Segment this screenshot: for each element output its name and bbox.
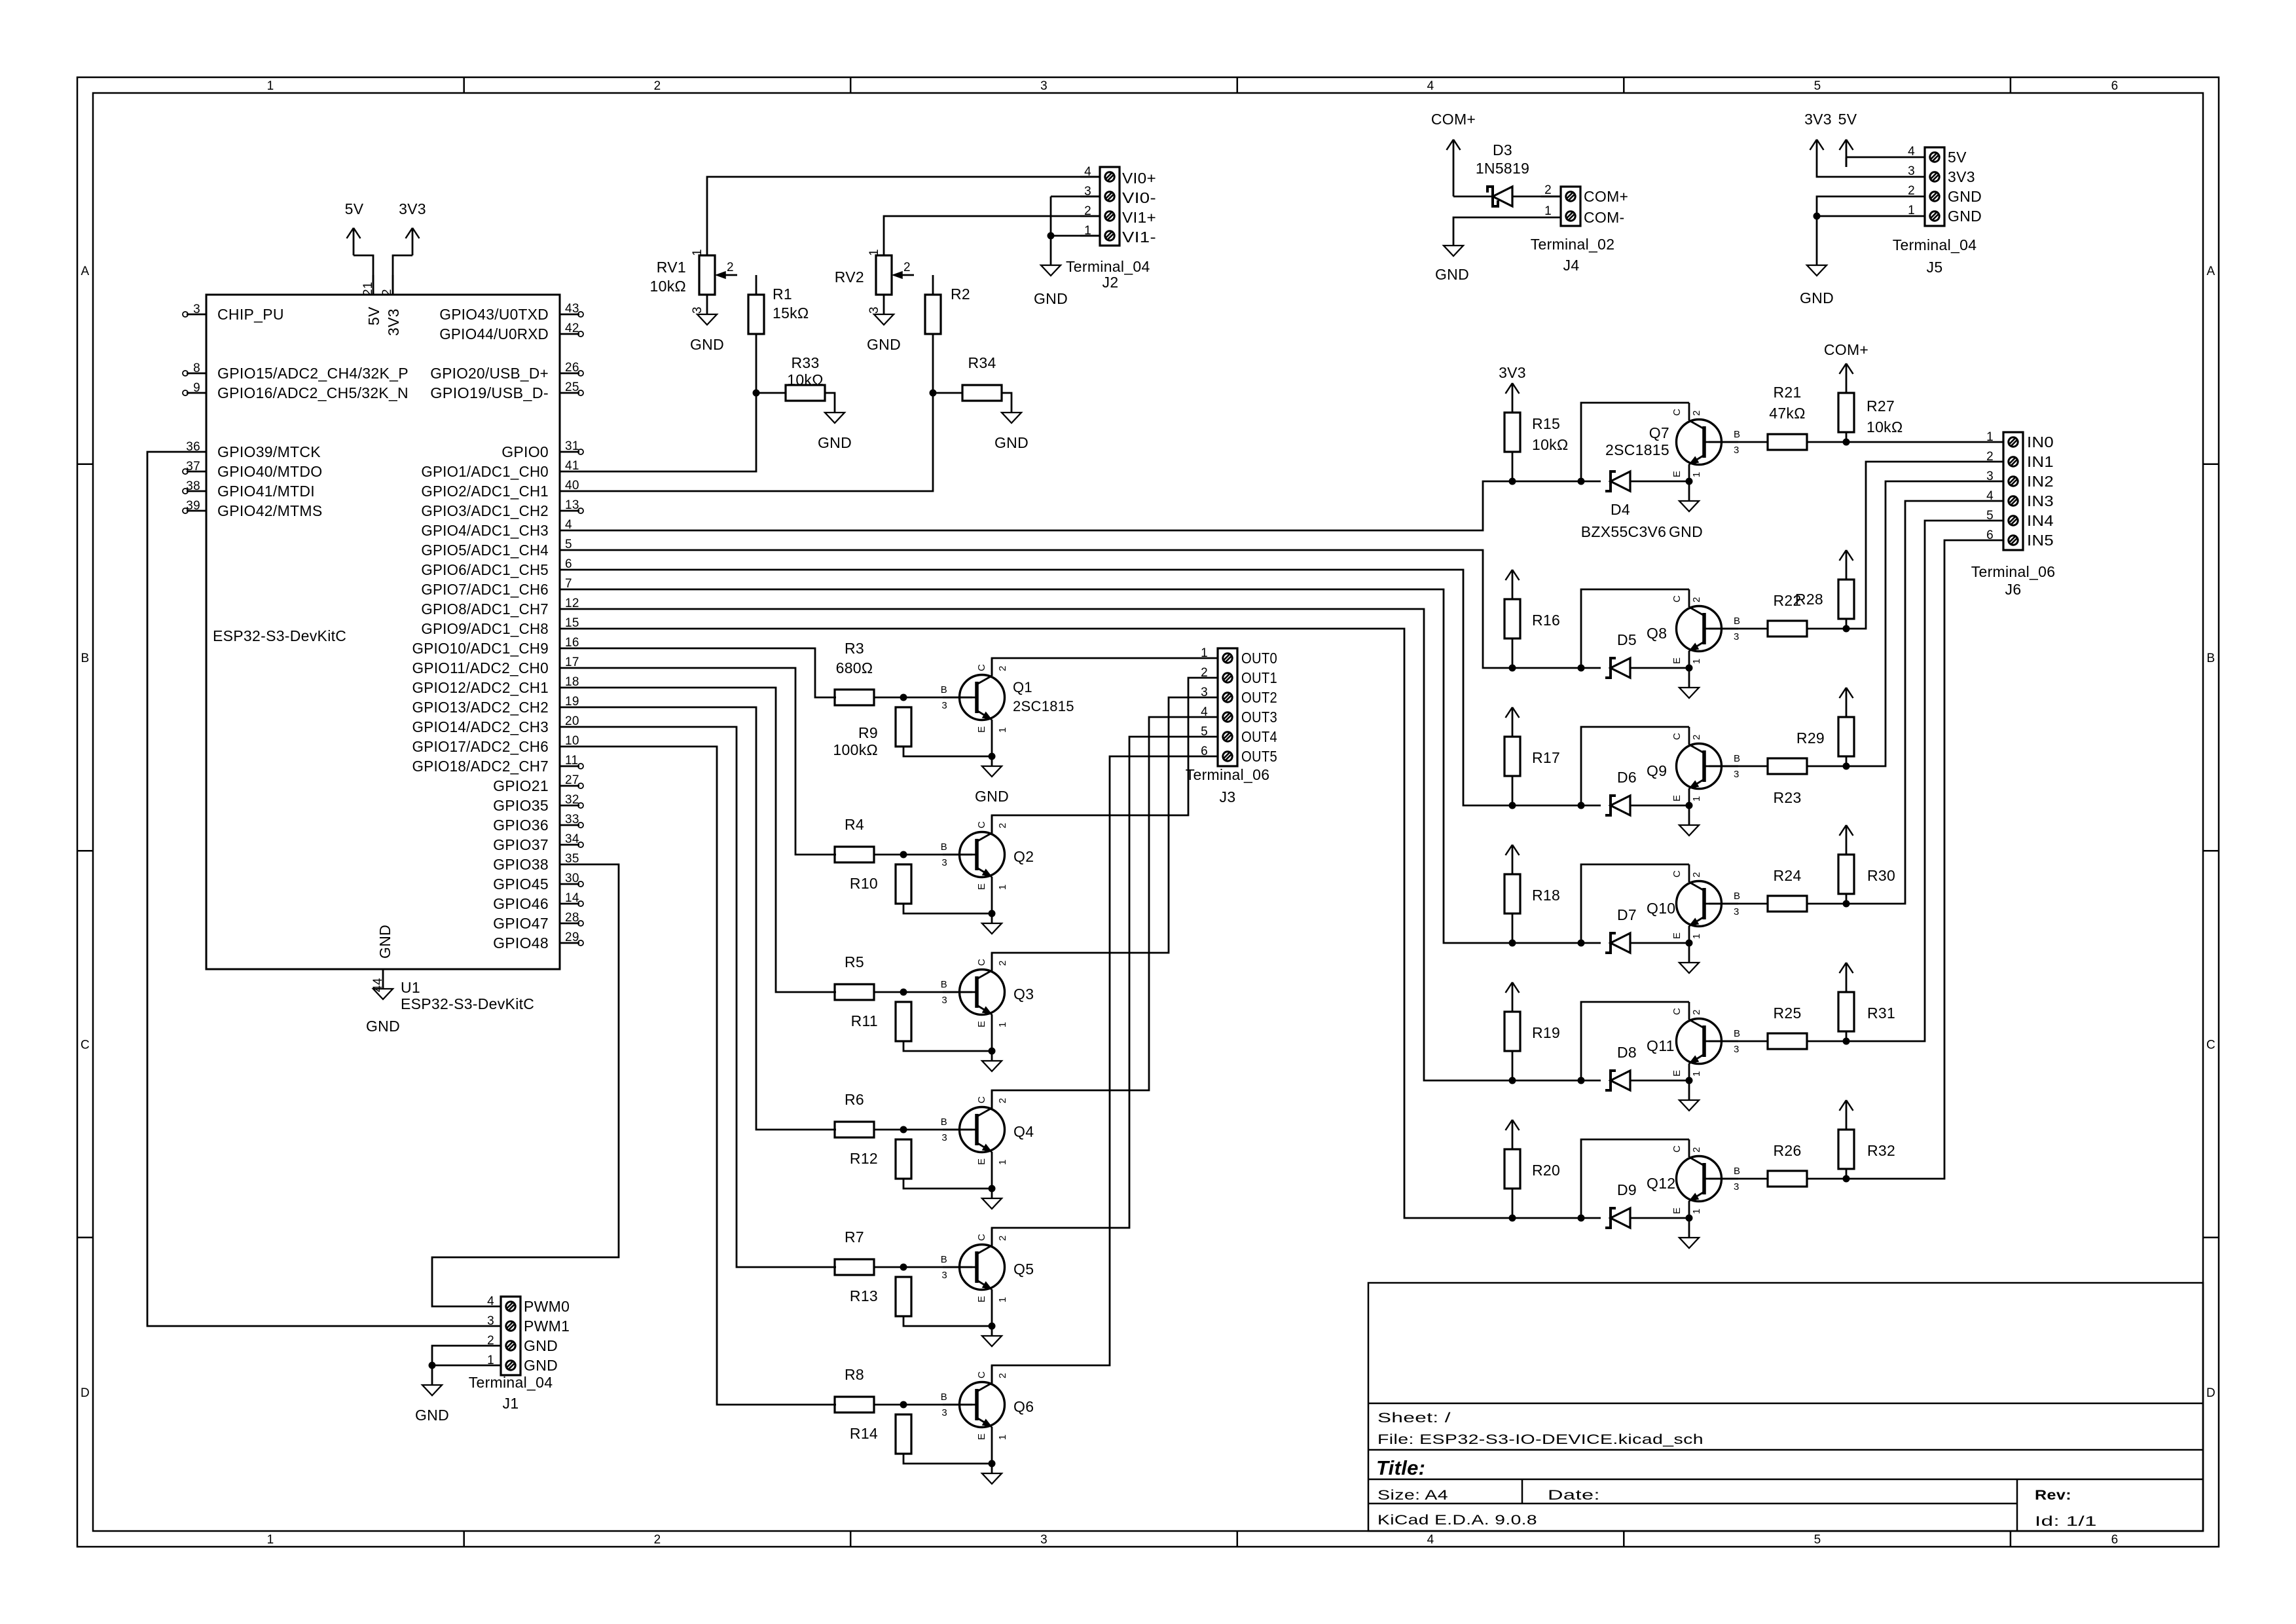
svg-text:GPIO47: GPIO47 <box>493 915 549 932</box>
svg-text:GPIO12/ADC2_CH1: GPIO12/ADC2_CH1 <box>412 679 549 696</box>
U1 pin 12 GPIO8/ADC1_CH7 <box>421 597 579 618</box>
svg-text:6: 6 <box>565 557 572 571</box>
ground at R33 <box>818 413 852 451</box>
svg-text:2: 2 <box>1544 183 1552 197</box>
svg-text:41: 41 <box>565 459 579 473</box>
svg-text:2SC1815: 2SC1815 <box>1013 698 1074 714</box>
svg-text:GND: GND <box>415 1407 449 1424</box>
svg-text:R19: R19 <box>1532 1024 1560 1041</box>
svg-text:2: 2 <box>997 960 1008 966</box>
svg-text:GPIO10/ADC1_CH9: GPIO10/ADC1_CH9 <box>412 640 549 657</box>
svg-text:2: 2 <box>997 1235 1008 1241</box>
svg-text:3: 3 <box>691 306 704 314</box>
transistor Q9 2SC1815 <box>1647 727 1740 805</box>
wire U1 pin 18 to R5 <box>579 688 836 992</box>
svg-text:2: 2 <box>1691 734 1702 740</box>
resistor R11 (pulldown) <box>851 1002 911 1041</box>
wire J1 pin2/pin1 to ground <box>432 1346 481 1385</box>
svg-text:R13: R13 <box>850 1287 878 1304</box>
wire Q8 emitter to ground <box>1688 668 1690 688</box>
ground at Q9 <box>1679 825 1699 836</box>
svg-text:4: 4 <box>487 1295 494 1308</box>
svg-text:GND: GND <box>524 1357 558 1374</box>
resistor R22 (base) <box>1768 592 1807 637</box>
resistor R3 (base) <box>835 640 874 705</box>
ground at U1 pin 44 <box>366 989 400 1035</box>
resistor R26 (base) <box>1768 1142 1807 1187</box>
power COM+ <box>1431 111 1476 167</box>
wire Q1 collector to J3 pin 1 <box>992 658 1198 676</box>
wire Q11 collector loop <box>1581 1002 1689 1080</box>
potentiometer RV2 <box>835 249 914 314</box>
U1 pin 29 GPIO48 <box>493 931 583 951</box>
svg-text:GPIO19/USB_D-: GPIO19/USB_D- <box>430 384 549 401</box>
svg-text:B: B <box>1734 1028 1740 1039</box>
transistor Q12 2SC1815 <box>1647 1139 1740 1218</box>
resistor R20 (pullup to 3V3) <box>1504 1139 1560 1218</box>
power 3V3 at R19 <box>1506 982 1520 1002</box>
svg-text:Rev:: Rev: <box>2035 1488 2071 1503</box>
svg-text:3: 3 <box>941 1132 947 1143</box>
svg-text:1: 1 <box>997 727 1008 733</box>
svg-text:Q4: Q4 <box>1013 1123 1034 1140</box>
svg-text:C: C <box>1671 1145 1683 1153</box>
svg-text:3: 3 <box>941 1407 947 1418</box>
svg-text:14: 14 <box>565 891 579 905</box>
svg-text:C: C <box>1671 409 1683 416</box>
svg-text:R27: R27 <box>1867 397 1895 415</box>
resistor R1 15k <box>748 286 809 334</box>
svg-text:Q5: Q5 <box>1013 1261 1034 1278</box>
wire RV1 wiper to R1 <box>756 275 757 295</box>
wire Q9 emitter to ground <box>1688 805 1690 825</box>
U1 pin 9 GPIO16/ADC2_CH5/32K_N <box>183 381 409 401</box>
svg-text:D9: D9 <box>1617 1181 1637 1198</box>
svg-text:R1: R1 <box>773 286 792 303</box>
wire U1 pin 19 to R6 <box>579 707 836 1130</box>
junction Q8 emitter <box>1686 665 1693 672</box>
wire node to R34 <box>933 392 962 394</box>
svg-text:3V3: 3V3 <box>1948 168 1975 185</box>
resistor R32 (pullup to COM+) <box>1838 1120 1895 1179</box>
svg-text:B: B <box>2207 652 2215 665</box>
svg-text:1: 1 <box>997 1297 1008 1302</box>
svg-text:3: 3 <box>1734 631 1740 642</box>
svg-text:10kΩ: 10kΩ <box>1532 436 1568 453</box>
wire channel 2 node to D6 <box>1512 805 1601 807</box>
svg-text:J2: J2 <box>1102 274 1119 291</box>
svg-text:B: B <box>941 1392 947 1403</box>
svg-text:3V3: 3V3 <box>1499 364 1526 381</box>
svg-text:5V: 5V <box>365 306 382 325</box>
diode D8 BZX55C3V6 (zener) <box>1605 1044 1637 1090</box>
U1 pin 15 GPIO9/ADC1_CH8 <box>421 616 579 637</box>
ground at R34 <box>994 413 1029 451</box>
diode D3 1N5819 (schottky) <box>1476 141 1529 206</box>
svg-text:R8: R8 <box>845 1366 864 1383</box>
svg-text:34: 34 <box>565 832 579 846</box>
resistor R18 (pullup to 3V3) <box>1504 864 1560 943</box>
U1 pin 16 GPIO10/ADC1_CH9 <box>412 636 580 657</box>
svg-text:10kΩ: 10kΩ <box>787 371 823 388</box>
svg-text:E: E <box>1671 932 1683 939</box>
svg-text:COM+: COM+ <box>1824 341 1868 358</box>
svg-text:Terminal_04: Terminal_04 <box>1893 236 1977 253</box>
transistor Q4 2SC1815 <box>941 1090 1034 1169</box>
wire R5 to Q3 base <box>874 991 972 993</box>
svg-text:3V3: 3V3 <box>1804 111 1832 128</box>
svg-text:GPIO9/ADC1_CH8: GPIO9/ADC1_CH8 <box>421 620 549 637</box>
wire channel 0 node to D4 <box>1512 481 1601 483</box>
svg-text:29: 29 <box>565 931 579 944</box>
svg-text:VI0+: VI0+ <box>1122 170 1156 187</box>
svg-text:Id: 1/1: Id: 1/1 <box>2035 1514 2097 1529</box>
svg-text:1: 1 <box>1544 204 1552 218</box>
svg-text:J6: J6 <box>2005 581 2022 598</box>
wire R9 to emitter node <box>903 747 992 756</box>
ground at J1 <box>415 1385 449 1424</box>
svg-text:B: B <box>941 841 947 853</box>
svg-text:VI1-: VI1- <box>1122 229 1156 246</box>
svg-text:GND: GND <box>818 434 852 451</box>
U1 pin 36 GPIO39/MTCK <box>186 440 321 460</box>
svg-text:Size: A4: Size: A4 <box>1377 1488 1448 1503</box>
wire COM+ to D3 cathode <box>1453 167 1493 196</box>
svg-text:D5: D5 <box>1617 631 1637 648</box>
svg-text:GPIO37: GPIO37 <box>493 836 549 853</box>
svg-text:Terminal_06: Terminal_06 <box>1186 766 1270 783</box>
wire D6 to Q9 emitter <box>1630 805 1689 807</box>
svg-text:GND: GND <box>690 336 724 353</box>
U1 pin 2 3V3 (top) <box>380 275 402 336</box>
wire U1 pin 17 to R4 <box>579 668 836 855</box>
svg-text:1: 1 <box>267 79 274 93</box>
svg-text:OUT3: OUT3 <box>1241 709 1277 726</box>
junction R17 node <box>1509 802 1516 809</box>
svg-text:31: 31 <box>565 439 579 453</box>
svg-text:B: B <box>941 684 947 695</box>
svg-text:E: E <box>976 1433 987 1440</box>
svg-text:4: 4 <box>1427 79 1434 93</box>
svg-text:COM+: COM+ <box>1584 188 1628 205</box>
svg-text:OUT2: OUT2 <box>1241 689 1277 706</box>
svg-text:GND: GND <box>994 434 1029 451</box>
svg-text:R25: R25 <box>1773 1005 1801 1022</box>
resistor R19 (pullup to 3V3) <box>1504 1002 1560 1080</box>
svg-text:CHIP_PU: CHIP_PU <box>217 306 284 323</box>
svg-text:GPIO45: GPIO45 <box>493 876 549 893</box>
svg-text:C: C <box>1671 1008 1683 1015</box>
svg-text:28: 28 <box>565 911 579 925</box>
svg-text:E: E <box>1671 795 1683 802</box>
wire Q7 collector loop <box>1581 403 1689 481</box>
resistor R21 (base) <box>1768 384 1807 450</box>
svg-text:E: E <box>976 1158 987 1165</box>
U1 pin 37 GPIO40/MTDO <box>183 460 323 480</box>
svg-text:1: 1 <box>1986 430 1994 444</box>
resistor R34 <box>962 354 1002 401</box>
svg-text:D: D <box>2206 1386 2215 1400</box>
svg-text:R23: R23 <box>1773 789 1801 806</box>
wire U1 pin 10 to R8 <box>579 747 836 1405</box>
svg-text:2: 2 <box>1691 410 1702 416</box>
svg-text:VI0-: VI0- <box>1122 189 1156 206</box>
connector J5 Terminal_04 <box>1893 145 1982 276</box>
U1 pin 33 GPIO36 <box>493 813 583 834</box>
svg-text:R14: R14 <box>850 1425 878 1442</box>
svg-text:R34: R34 <box>968 354 996 371</box>
svg-text:33: 33 <box>565 813 579 826</box>
svg-text:GND: GND <box>867 336 901 353</box>
transistor Q1 2SC1815 <box>941 658 1074 737</box>
wire RV2 wiper to R2 <box>932 275 934 295</box>
wire R22 to J6 node <box>1807 628 1846 630</box>
power 3V3 at J5 <box>1804 111 1832 167</box>
svg-text:4: 4 <box>1427 1533 1434 1547</box>
svg-text:GPIO48: GPIO48 <box>493 934 549 951</box>
wire 3V3 to J5 pin3 <box>1817 167 1905 177</box>
resistor R10 (pulldown) <box>850 864 911 904</box>
ground at Q8 <box>1679 688 1699 698</box>
svg-text:GPIO41/MTDI: GPIO41/MTDI <box>217 483 315 500</box>
resistor R4 (base) <box>835 816 874 862</box>
svg-text:30: 30 <box>565 872 579 885</box>
resistor R7 (base) <box>835 1228 874 1275</box>
power COM+ at R31 <box>1840 963 1853 982</box>
wire channel 1 to J6 pin 2 <box>1846 462 1984 629</box>
svg-text:15: 15 <box>565 616 579 630</box>
svg-text:2: 2 <box>1201 666 1208 680</box>
wire D8 to Q11 emitter <box>1630 1080 1689 1082</box>
junction collector loop channel 0 <box>1578 478 1585 485</box>
U1 pin 11 GPIO18/ADC2_CH7 <box>412 754 584 775</box>
svg-text:R6: R6 <box>845 1091 864 1108</box>
svg-text:Terminal_04: Terminal_04 <box>1066 258 1150 275</box>
junction collector loop channel 5 <box>1578 1215 1585 1222</box>
resistor R27 (pullup to COM+) <box>1838 383 1903 442</box>
svg-text:39: 39 <box>186 499 200 513</box>
svg-text:E: E <box>1671 1208 1683 1214</box>
svg-text:13: 13 <box>565 498 579 512</box>
wire R23 to J6 node <box>1807 766 1846 767</box>
svg-text:19: 19 <box>565 695 579 709</box>
svg-text:2: 2 <box>487 1334 494 1348</box>
svg-text:ESP32-S3-DevKitC: ESP32-S3-DevKitC <box>213 627 346 644</box>
svg-text:ESP32-S3-DevKitC: ESP32-S3-DevKitC <box>401 995 534 1012</box>
svg-text:R33: R33 <box>791 354 819 371</box>
svg-text:C: C <box>976 821 987 828</box>
svg-text:R26: R26 <box>1773 1142 1801 1159</box>
svg-text:36: 36 <box>186 440 200 454</box>
transistor Q5 2SC1815 <box>941 1228 1034 1306</box>
connector J4 Terminal_02 <box>1531 183 1629 274</box>
junction J5 ground net <box>1813 213 1821 220</box>
U1 pin 41 GPIO1/ADC1_CH0 <box>421 459 579 480</box>
resistor R28 (pullup to COM+) <box>1795 570 1854 629</box>
svg-text:R16: R16 <box>1532 612 1560 629</box>
junction emitter node Q4 <box>989 1185 996 1192</box>
U1 pin 34 GPIO37 <box>493 832 583 853</box>
ground at Q12 <box>1679 1238 1699 1248</box>
wire Q12 base to R26 <box>1709 1178 1768 1180</box>
svg-text:3V3: 3V3 <box>399 200 426 217</box>
svg-text:C: C <box>2206 1039 2215 1052</box>
U1 pin 42 GPIO44/U0RXD <box>439 322 583 342</box>
U1 pin 38 GPIO41/MTDI <box>183 479 315 500</box>
junction R27 node <box>1843 439 1850 446</box>
svg-text:E: E <box>976 1021 987 1027</box>
svg-text:12: 12 <box>565 597 579 610</box>
svg-text:D7: D7 <box>1617 906 1637 923</box>
svg-text:R28: R28 <box>1795 591 1823 608</box>
svg-text:1: 1 <box>1691 658 1702 664</box>
U1 pin 25 GPIO19/USB_D- <box>430 380 583 401</box>
resistor R23 (base) <box>1768 758 1807 806</box>
svg-text:3: 3 <box>1734 769 1740 780</box>
junction R30 node <box>1843 900 1850 908</box>
junction emitter node Q2 <box>989 910 996 917</box>
svg-text:C: C <box>976 664 987 671</box>
svg-text:10kΩ: 10kΩ <box>1867 418 1903 435</box>
junction R32 node <box>1843 1175 1850 1183</box>
wire R3 to Q1 base <box>874 697 972 699</box>
svg-text:Q11: Q11 <box>1647 1037 1675 1054</box>
wire D3 anode to J4 pin2 <box>1512 196 1561 198</box>
U1 pin 26 GPIO20/USB_D+ <box>430 361 583 382</box>
wire R6 to Q4 base <box>874 1129 972 1131</box>
svg-text:IN4: IN4 <box>2027 512 2054 529</box>
svg-text:E: E <box>1671 471 1683 477</box>
transistor Q8 2SC1815 <box>1647 589 1740 668</box>
svg-text:GPIO43/U0TXD: GPIO43/U0TXD <box>439 306 549 323</box>
wire R24 to J6 node <box>1807 903 1846 905</box>
svg-text:R3: R3 <box>845 640 864 657</box>
svg-text:E: E <box>976 1296 987 1302</box>
svg-text:C: C <box>81 1039 90 1052</box>
resistor R6 (base) <box>835 1091 874 1137</box>
svg-text:IN5: IN5 <box>2027 532 2054 549</box>
wire channel 2 to J6 pin 3 <box>1846 481 1984 766</box>
ground at J5 <box>1800 265 1834 306</box>
svg-text:11: 11 <box>565 754 578 767</box>
svg-text:2: 2 <box>1908 184 1915 198</box>
svg-text:6: 6 <box>1201 745 1208 758</box>
wire R25 to J6 node <box>1807 1041 1846 1043</box>
ground at Q10 <box>1679 963 1699 973</box>
wire U1 pin 12 to input channel 4 <box>579 609 1512 1080</box>
ground at Q2 <box>982 923 1002 934</box>
svg-text:5: 5 <box>565 538 572 551</box>
title block <box>1368 1283 2203 1531</box>
svg-text:2: 2 <box>1691 872 1702 877</box>
connector J1 Terminal_04 <box>469 1295 570 1412</box>
svg-text:J4: J4 <box>1563 257 1580 274</box>
wire Q8 collector loop <box>1581 589 1689 668</box>
svg-text:10: 10 <box>565 734 579 748</box>
svg-text:PWM0: PWM0 <box>524 1298 570 1315</box>
U1 pin 18 GPIO12/ADC2_CH1 <box>412 675 580 696</box>
junction base node Q2 <box>900 851 907 858</box>
U1 pin 39 GPIO42/MTMS <box>183 499 323 519</box>
junction Q7 emitter <box>1686 478 1693 485</box>
svg-text:J1: J1 <box>503 1395 519 1412</box>
svg-text:GPIO14/ADC2_CH3: GPIO14/ADC2_CH3 <box>412 718 549 735</box>
svg-text:1: 1 <box>997 884 1008 890</box>
wire Q6 collector to J3 pin 6 <box>992 756 1198 1384</box>
wire J5 pin2/pin1 to ground <box>1817 196 1905 265</box>
svg-text:3V3: 3V3 <box>385 308 402 336</box>
svg-text:IN3: IN3 <box>2027 492 2054 509</box>
U1 pin 30 GPIO45 <box>493 872 583 893</box>
U1 pin 6 GPIO6/ADC1_CH5 <box>421 557 579 578</box>
svg-text:Terminal_06: Terminal_06 <box>1971 563 2056 580</box>
wire Q10 emitter to ground <box>1688 943 1690 963</box>
svg-text:6: 6 <box>1986 528 1994 542</box>
svg-text:2: 2 <box>1691 1147 1702 1153</box>
svg-text:D6: D6 <box>1617 769 1637 786</box>
wire U1 pin 16 to R3 <box>579 648 836 697</box>
svg-text:GPIO4/ADC1_CH3: GPIO4/ADC1_CH3 <box>421 522 549 539</box>
junction emitter node Q1 <box>989 753 996 760</box>
junction base node Q5 <box>900 1264 907 1271</box>
svg-text:37: 37 <box>186 460 200 473</box>
svg-text:GPIO18/ADC2_CH7: GPIO18/ADC2_CH7 <box>412 758 549 775</box>
wire R33 to ground <box>825 393 835 413</box>
svg-text:GPIO38: GPIO38 <box>493 856 549 873</box>
power 3V3 at R16 <box>1506 570 1520 589</box>
svg-text:27: 27 <box>565 773 579 787</box>
wire channel 1 node to D5 <box>1512 667 1601 669</box>
svg-text:2: 2 <box>727 261 734 274</box>
transistor Q10 2SC1815 <box>1647 864 1740 943</box>
svg-text:100kΩ: 100kΩ <box>833 741 878 758</box>
svg-text:16: 16 <box>565 636 579 650</box>
U1 pin 7 GPIO7/ADC1_CH6 <box>421 577 579 598</box>
svg-text:3: 3 <box>867 306 881 314</box>
connector J3 Terminal_06 <box>1186 646 1277 805</box>
resistor R14 (pulldown) <box>850 1414 911 1454</box>
ground at Q1 <box>975 766 1009 805</box>
wire J4 pin1 to ground <box>1453 217 1541 246</box>
svg-text:17: 17 <box>565 655 579 669</box>
svg-text:1: 1 <box>867 249 881 256</box>
ground at J4 <box>1435 246 1469 283</box>
svg-text:2: 2 <box>654 79 661 93</box>
U1 pin 8 GPIO15/ADC2_CH4/32K_P <box>183 361 409 382</box>
svg-text:GPIO42/MTMS: GPIO42/MTMS <box>217 502 323 519</box>
wire node to R33 <box>756 392 786 394</box>
power 3V3 <box>399 200 426 255</box>
svg-text:C: C <box>1671 870 1683 877</box>
svg-text:38: 38 <box>186 479 200 493</box>
svg-text:4: 4 <box>1908 145 1915 158</box>
svg-text:B: B <box>1734 429 1740 440</box>
svg-text:680Ω: 680Ω <box>836 659 873 676</box>
svg-text:E: E <box>976 883 987 890</box>
svg-text:3: 3 <box>1986 470 1994 483</box>
resistor R25 (base) <box>1768 1005 1807 1049</box>
junction Q9 emitter <box>1686 802 1693 809</box>
svg-text:5: 5 <box>1814 79 1821 93</box>
svg-text:GPIO15/ADC2_CH4/32K_P: GPIO15/ADC2_CH4/32K_P <box>217 365 409 382</box>
svg-text:Sheet: /: Sheet: / <box>1377 1411 1451 1426</box>
svg-text:1: 1 <box>1691 1071 1702 1077</box>
svg-text:C: C <box>1671 595 1683 602</box>
wire R34 to ground <box>1002 393 1011 413</box>
wire J2 pin2 to RV2 pin1 <box>884 216 1100 255</box>
svg-text:COM-: COM- <box>1584 209 1625 226</box>
svg-text:1: 1 <box>1691 471 1702 477</box>
